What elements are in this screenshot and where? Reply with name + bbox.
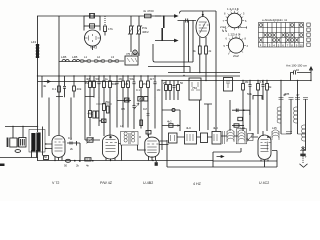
- svg-text:1M: 1M: [143, 107, 148, 111]
- svg-text:4x 4700: 4x 4700: [143, 9, 154, 13]
- svg-text:2GZ: 2GZ: [233, 54, 239, 58]
- svg-text:L4B: L4B: [72, 55, 77, 59]
- svg-text:T: T: [305, 155, 307, 159]
- svg-text:L4: L4: [120, 124, 124, 128]
- svg-text:50k: 50k: [112, 82, 117, 86]
- svg-text:4k2: 4k2: [167, 120, 172, 124]
- svg-text:a Abcdefghijklm ml: a Abcdefghijklm ml: [262, 18, 287, 22]
- svg-text:Ant 100-150 cm: Ant 100-150 cm: [286, 64, 308, 68]
- svg-text:0.1: 0.1: [68, 136, 72, 140]
- svg-text:750: 750: [192, 86, 197, 90]
- svg-text:50k: 50k: [247, 92, 252, 96]
- svg-text:4P: 4P: [296, 93, 300, 97]
- svg-text:L4B: L4B: [61, 55, 66, 59]
- svg-text:0.5: 0.5: [121, 107, 125, 111]
- svg-text:40k: 40k: [77, 87, 82, 91]
- svg-text:L45: L45: [272, 126, 277, 130]
- svg-text:V 43: V 43: [90, 46, 97, 50]
- svg-text:V 72: V 72: [52, 181, 59, 185]
- svg-text:4M: 4M: [86, 77, 91, 81]
- svg-text:10: 10: [300, 43, 304, 47]
- svg-text:4M0: 4M0: [88, 112, 94, 116]
- svg-text:1M: 1M: [157, 88, 162, 92]
- svg-text:L43: L43: [31, 40, 36, 44]
- svg-text:4M: 4M: [85, 81, 90, 85]
- svg-text:0.1: 0.1: [52, 87, 57, 91]
- svg-text:4k7: 4k7: [150, 77, 155, 81]
- svg-text:4Hz: 4Hz: [213, 126, 219, 130]
- svg-text:L2: L2: [97, 55, 101, 59]
- svg-text:4n: 4n: [86, 164, 90, 168]
- svg-text:50: 50: [96, 77, 100, 81]
- svg-text:4 HZ: 4 HZ: [193, 182, 202, 186]
- svg-text:L3: L3: [111, 55, 115, 59]
- svg-text:17k: 17k: [108, 27, 113, 31]
- svg-text:L1: L1: [84, 55, 88, 59]
- svg-text:4P: 4P: [283, 93, 287, 97]
- svg-text:+10: +10: [294, 68, 299, 72]
- svg-text:25: 25: [163, 81, 167, 85]
- svg-text:U 4C2: U 4C2: [259, 181, 269, 185]
- svg-text:0.1: 0.1: [136, 88, 140, 92]
- svg-text:L44: L44: [240, 126, 245, 130]
- svg-text:U-4B2: U-4B2: [143, 181, 153, 185]
- svg-text:50: 50: [44, 155, 48, 159]
- svg-text:50k: 50k: [130, 77, 135, 81]
- svg-text:P/W 4Z: P/W 4Z: [100, 181, 113, 185]
- svg-text:2M: 2M: [119, 77, 124, 81]
- svg-text:7/5 (1000): 7/5 (1000): [126, 52, 140, 56]
- svg-text:50: 50: [64, 164, 68, 168]
- svg-text:50: 50: [180, 81, 184, 85]
- svg-text:25k: 25k: [143, 82, 148, 86]
- svg-text:4Hz: 4Hz: [186, 126, 192, 130]
- svg-text:4k: 4k: [43, 84, 47, 88]
- svg-text:4M/2: 4M/2: [142, 30, 149, 34]
- svg-text:2M: 2M: [245, 80, 250, 84]
- svg-text:0.5: 0.5: [260, 80, 264, 84]
- svg-text:1M: 1M: [124, 82, 129, 86]
- svg-text:25k: 25k: [105, 100, 110, 104]
